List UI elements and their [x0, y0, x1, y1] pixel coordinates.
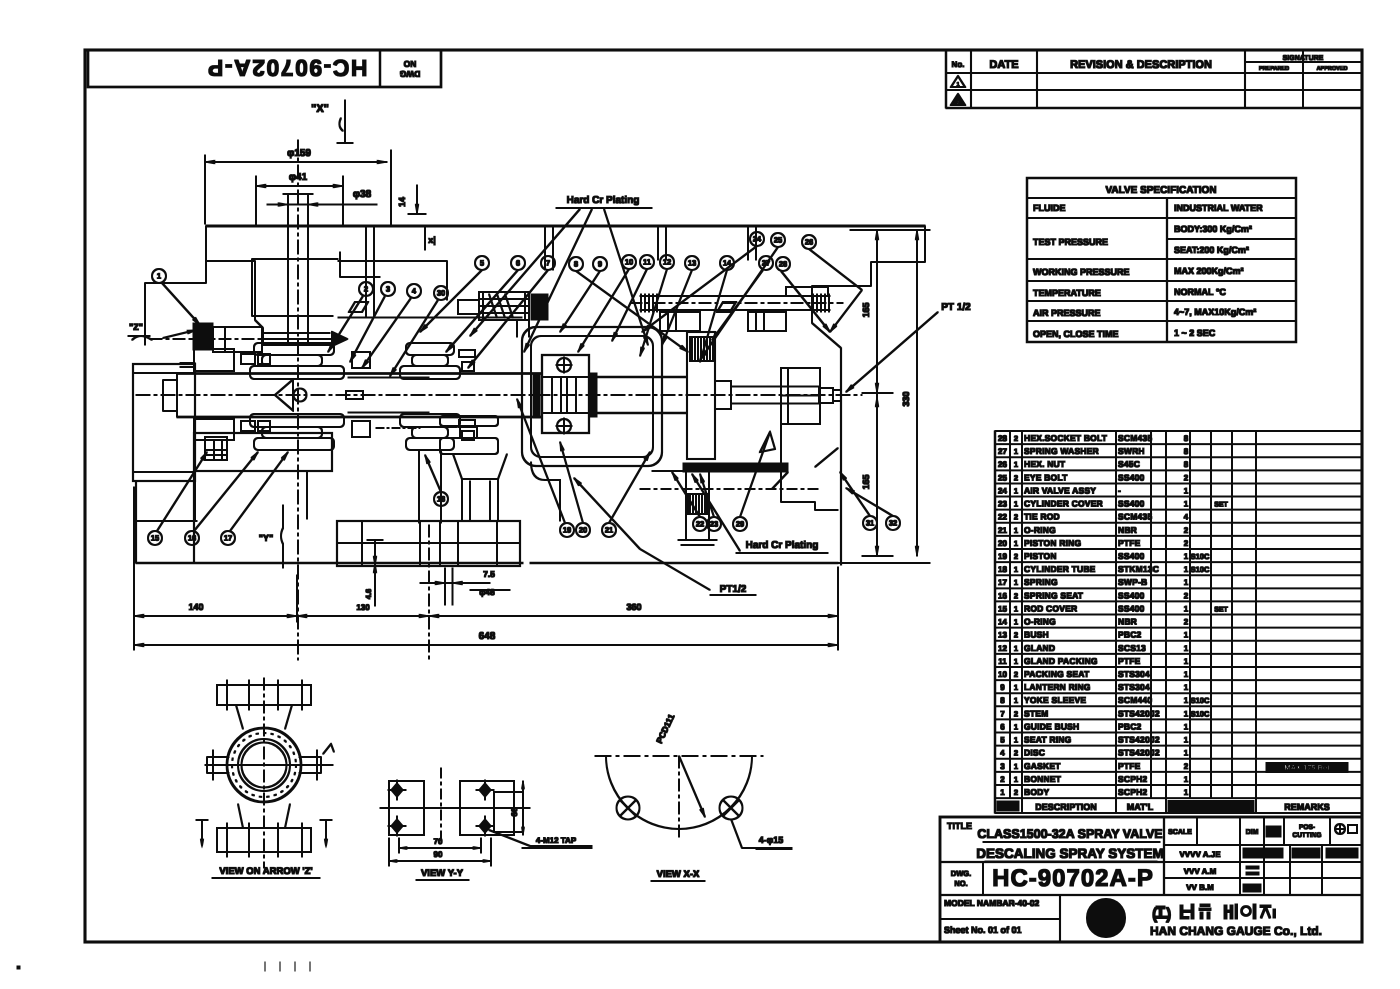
svg-text:SS400: SS400: [1118, 603, 1145, 613]
svg-text:DIM: DIM: [1246, 829, 1259, 836]
svg-text:VALVE SPECIFICATION: VALVE SPECIFICATION: [1105, 185, 1216, 196]
svg-text:HC-90702A-P: HC-90702A-P: [207, 55, 368, 81]
svg-text:1: 1: [1184, 657, 1189, 666]
svg-text:Hard Cr Plating: Hard Cr Plating: [567, 195, 640, 206]
svg-text:φ41: φ41: [289, 172, 308, 183]
svg-text:SCALE: SCALE: [1168, 829, 1192, 836]
svg-text:60: 60: [510, 807, 519, 816]
svg-text:ROD COVER: ROD COVER: [1024, 603, 1077, 613]
svg-text:1: 1: [1184, 683, 1189, 692]
svg-text:1: 1: [1184, 565, 1189, 574]
svg-text:4-φ15: 4-φ15: [759, 835, 783, 845]
svg-text:CYLINDER COVER: CYLINDER COVER: [1024, 499, 1103, 509]
svg-text:NBR: NBR: [1118, 617, 1137, 627]
svg-text:28: 28: [779, 260, 787, 269]
svg-text:26: 26: [998, 460, 1007, 469]
svg-text:90: 90: [434, 850, 443, 859]
svg-text:165: 165: [861, 302, 871, 317]
svg-text:NO.: NO.: [954, 879, 967, 888]
svg-text:YOKE SLEEVE: YOKE SLEEVE: [1024, 695, 1086, 705]
svg-text:EYE BOLT: EYE BOLT: [1024, 472, 1068, 482]
svg-text:PISTON RING: PISTON RING: [1024, 538, 1081, 548]
svg-text:6: 6: [516, 259, 520, 268]
svg-text:1: 1: [1014, 736, 1018, 745]
svg-text:1: 1: [1184, 709, 1189, 718]
svg-text:VIEW X-X: VIEW X-X: [657, 869, 700, 880]
svg-text:S45C: S45C: [1118, 459, 1140, 469]
svg-text:1: 1: [1184, 552, 1189, 561]
svg-text:1: 1: [1184, 578, 1189, 587]
svg-text:5: 5: [480, 259, 484, 268]
svg-text:360: 360: [626, 602, 641, 612]
svg-text:1: 1: [1014, 696, 1018, 705]
svg-text:APPROVED: APPROVED: [1317, 66, 1348, 72]
svg-text:HEX. NUT: HEX. NUT: [1024, 459, 1066, 469]
svg-text:φ159: φ159: [287, 148, 311, 159]
svg-text:CUTTING: CUTTING: [1293, 832, 1322, 839]
svg-text:PTFE: PTFE: [1118, 761, 1141, 771]
svg-text:TEMPERATURE: TEMPERATURE: [1033, 288, 1101, 298]
svg-text:SCPH2: SCPH2: [1118, 774, 1147, 784]
svg-text:25: 25: [774, 236, 782, 245]
svg-text:3: 3: [1000, 762, 1005, 771]
svg-text:POS-: POS-: [1299, 824, 1315, 831]
svg-text:1: 1: [1184, 788, 1189, 797]
svg-text:DESCRIPTION: DESCRIPTION: [1035, 802, 1097, 812]
svg-text:Hard Cr Plating: Hard Cr Plating: [746, 540, 819, 551]
svg-text:2: 2: [1014, 749, 1018, 758]
svg-text:27: 27: [998, 447, 1007, 456]
svg-text:PISTON: PISTON: [1024, 551, 1057, 561]
svg-text:8: 8: [1000, 696, 1005, 705]
svg-text:2: 2: [1184, 526, 1189, 535]
svg-text:OPEN, CLOSE TIME: OPEN, CLOSE TIME: [1033, 329, 1119, 339]
svg-text:PREPARED: PREPARED: [1259, 66, 1289, 72]
svg-text:STS420J2: STS420J2: [1118, 748, 1160, 758]
svg-text:19: 19: [563, 526, 571, 535]
svg-text:DATE: DATE: [989, 59, 1018, 71]
svg-text:PTFE: PTFE: [1118, 538, 1141, 548]
svg-text:HEX.SOCKET BOLT: HEX.SOCKET BOLT: [1024, 433, 1108, 443]
svg-text:S10C: S10C: [1191, 565, 1210, 574]
svg-text:1 ~ 2 SEC: 1 ~ 2 SEC: [1174, 328, 1216, 338]
svg-text:PACKING SEAT: PACKING SEAT: [1024, 669, 1090, 679]
svg-text:4~7, MAX10Kg/Cm²: 4~7, MAX10Kg/Cm²: [1174, 307, 1256, 317]
svg-text:4: 4: [1000, 749, 1005, 758]
svg-text:1: 1: [1014, 618, 1018, 627]
svg-text:15: 15: [151, 534, 159, 543]
svg-text:1: 1: [1184, 736, 1189, 745]
svg-text:14: 14: [397, 197, 407, 207]
svg-text:REVISION & DESCRIPTION: REVISION & DESCRIPTION: [1070, 59, 1212, 71]
svg-text:1: 1: [1014, 447, 1018, 456]
svg-text:20: 20: [579, 526, 587, 535]
svg-text:2: 2: [1014, 670, 1018, 679]
svg-text:1: 1: [956, 82, 959, 88]
svg-text:GLAND: GLAND: [1024, 643, 1055, 653]
svg-text:HAN CHANG GAUGE Co., Ltd.: HAN CHANG GAUGE Co., Ltd.: [1150, 924, 1322, 938]
svg-text:"Y": "Y": [259, 533, 274, 543]
svg-text:SS400: SS400: [1118, 590, 1145, 600]
svg-text:SEAT RING: SEAT RING: [1024, 735, 1072, 745]
svg-text:PBC2: PBC2: [1118, 721, 1142, 731]
svg-text:DWG.: DWG.: [951, 869, 971, 878]
svg-text:CYLINDER TUBE: CYLINDER TUBE: [1024, 564, 1096, 574]
svg-text:1: 1: [1184, 604, 1189, 613]
svg-text:7: 7: [1000, 709, 1005, 718]
svg-text:SS400: SS400: [1118, 499, 1145, 509]
svg-text:1: 1: [1014, 565, 1018, 574]
svg-text:O-RING: O-RING: [1024, 525, 1056, 535]
svg-text:TEST PRESSURE: TEST PRESSURE: [1033, 237, 1108, 247]
svg-text:SCM435: SCM435: [1118, 433, 1152, 443]
svg-text:17: 17: [998, 578, 1007, 587]
svg-text:S10C: S10C: [1191, 709, 1210, 718]
svg-text:SEAT:200 Kg/Cm²: SEAT:200 Kg/Cm²: [1174, 245, 1249, 255]
svg-text:2: 2: [1014, 552, 1018, 561]
svg-text:DWG: DWG: [399, 69, 420, 79]
svg-text:GUIDE BUSH: GUIDE BUSH: [1024, 721, 1079, 731]
svg-text:-: -: [1118, 485, 1121, 495]
svg-text:STS304: STS304: [1118, 682, 1150, 692]
svg-text:23: 23: [998, 500, 1007, 509]
svg-text:12: 12: [663, 258, 671, 267]
svg-text:VVV A.M: VVV A.M: [1184, 867, 1217, 876]
svg-text:BODY:300 Kg/Cm²: BODY:300 Kg/Cm²: [1174, 224, 1252, 234]
svg-text:SPRING SEAT: SPRING SEAT: [1024, 590, 1084, 600]
svg-text:6: 6: [1000, 722, 1005, 731]
svg-text:30: 30: [437, 289, 445, 298]
svg-text:10: 10: [998, 670, 1007, 679]
svg-text:VVVV A.JE: VVVV A.JE: [1179, 850, 1221, 859]
svg-text:24: 24: [998, 486, 1007, 495]
svg-text:1: 1: [1014, 526, 1018, 535]
svg-text:Sheet No. 01 of 01: Sheet No. 01 of 01: [944, 925, 1022, 935]
svg-text:8: 8: [574, 260, 578, 269]
svg-text:8: 8: [1184, 434, 1189, 443]
svg-text:SPRING WASHER: SPRING WASHER: [1024, 446, 1099, 456]
svg-text:8: 8: [1184, 447, 1189, 456]
svg-text:1: 1: [1014, 657, 1018, 666]
svg-text:15: 15: [998, 604, 1007, 613]
svg-text:MAX 200Kg/Cm²: MAX 200Kg/Cm²: [1174, 266, 1244, 276]
svg-text:NO: NO: [403, 59, 416, 69]
svg-text:TIE ROD: TIE ROD: [1024, 512, 1060, 522]
svg-text:1: 1: [1014, 500, 1018, 509]
svg-text:1: 1: [1014, 683, 1018, 692]
svg-text:13: 13: [688, 259, 696, 268]
svg-text:2: 2: [1184, 618, 1189, 627]
svg-text:11: 11: [998, 657, 1007, 666]
svg-text:SWP-B: SWP-B: [1118, 577, 1147, 587]
svg-text:32: 32: [889, 519, 897, 528]
svg-text:18: 18: [998, 565, 1007, 574]
svg-text:2: 2: [1014, 434, 1018, 443]
svg-text:FLUIDE: FLUIDE: [1033, 203, 1066, 213]
svg-text:No.: No.: [952, 60, 965, 69]
svg-text:1: 1: [1184, 775, 1189, 784]
svg-text:1: 1: [1184, 486, 1189, 495]
svg-text:1: 1: [1184, 644, 1189, 653]
svg-text:2: 2: [1000, 775, 1005, 784]
svg-text:REMARKS: REMARKS: [1284, 802, 1330, 812]
svg-text:MAT'L: MAT'L: [1127, 802, 1154, 812]
svg-text:NBR: NBR: [1118, 525, 1137, 535]
svg-text:2: 2: [1184, 762, 1189, 771]
svg-text:29: 29: [736, 520, 744, 529]
svg-text:2: 2: [1014, 631, 1018, 640]
svg-text:18: 18: [437, 495, 445, 504]
svg-text:4.6: 4.6: [364, 589, 373, 599]
svg-text:70: 70: [434, 837, 443, 846]
svg-text:1: 1: [1014, 775, 1018, 784]
svg-text:26: 26: [805, 238, 813, 247]
svg-text:PBC2: PBC2: [1118, 630, 1142, 640]
svg-text:VIEW Y-Y: VIEW Y-Y: [421, 868, 464, 879]
svg-text:16: 16: [998, 591, 1007, 600]
svg-text:BUSH: BUSH: [1024, 630, 1049, 640]
svg-text:1: 1: [1014, 578, 1018, 587]
svg-text:STKM13C: STKM13C: [1118, 564, 1159, 574]
svg-text:24: 24: [753, 235, 762, 244]
svg-text:"X": "X": [311, 103, 329, 115]
svg-text:SS400: SS400: [1118, 551, 1145, 561]
svg-text:5: 5: [1000, 736, 1005, 745]
svg-text:PT1/2: PT1/2: [720, 584, 747, 595]
svg-text:9: 9: [1000, 683, 1005, 692]
svg-text:9: 9: [598, 260, 602, 269]
svg-text:DESCALING SPRAY SYSTEM: DESCALING SPRAY SYSTEM: [976, 846, 1164, 861]
svg-text:13: 13: [998, 631, 1007, 640]
svg-text:SET: SET: [1214, 502, 1228, 509]
svg-text:25: 25: [998, 473, 1007, 482]
svg-text:10: 10: [625, 258, 633, 267]
svg-text:WORKING PRESSURE: WORKING PRESSURE: [1033, 267, 1130, 277]
svg-text:GLAND PACKING: GLAND PACKING: [1024, 656, 1098, 666]
svg-text:S10C: S10C: [1191, 696, 1210, 705]
svg-text:28: 28: [998, 434, 1007, 443]
svg-text:1: 1: [1000, 788, 1005, 797]
svg-text:16: 16: [188, 534, 196, 543]
svg-text:19: 19: [998, 552, 1007, 561]
svg-text:TITLE: TITLE: [947, 821, 972, 831]
svg-text:31: 31: [866, 519, 874, 528]
svg-text:HC-90702A-P: HC-90702A-P: [992, 865, 1154, 892]
svg-text:130: 130: [356, 603, 370, 612]
svg-text:VV B.M: VV B.M: [1186, 883, 1214, 892]
svg-text:S10C: S10C: [1191, 552, 1210, 561]
svg-text:SS400: SS400: [1118, 472, 1145, 482]
svg-text:SCPH2: SCPH2: [1118, 787, 1147, 797]
svg-text:SPRING: SPRING: [1024, 577, 1058, 587]
svg-text:SCS13: SCS13: [1118, 643, 1146, 653]
svg-text:3: 3: [386, 285, 390, 294]
svg-text:AIR VALVE ASSY: AIR VALVE ASSY: [1024, 485, 1096, 495]
svg-text:O-RING: O-RING: [1024, 617, 1056, 627]
svg-text:1: 1: [1184, 722, 1189, 731]
svg-text:1: 1: [1014, 486, 1018, 495]
svg-text:DISC: DISC: [1024, 748, 1045, 758]
svg-text:INDUSTRIAL WATER: INDUSTRIAL WATER: [1174, 203, 1263, 213]
svg-text:2: 2: [1184, 473, 1189, 482]
svg-text:BONNET: BONNET: [1024, 774, 1062, 784]
svg-text:φ48: φ48: [479, 587, 495, 597]
svg-text:VIEW ON ARROW 'Z': VIEW ON ARROW 'Z': [219, 866, 312, 877]
svg-text:2: 2: [1014, 709, 1018, 718]
svg-text:SCM440: SCM440: [1118, 695, 1152, 705]
svg-text:2: 2: [1014, 513, 1018, 522]
svg-text:SCM435: SCM435: [1118, 512, 1152, 522]
svg-text:1: 1: [1014, 644, 1018, 653]
svg-text:"Z": "Z": [129, 322, 143, 332]
svg-text:BODY: BODY: [1024, 787, 1049, 797]
svg-text:1: 1: [1014, 604, 1018, 613]
svg-text:2: 2: [364, 285, 368, 294]
svg-text:648: 648: [479, 631, 496, 642]
svg-text:1: 1: [1184, 631, 1189, 640]
svg-text:2: 2: [1184, 539, 1189, 548]
svg-text:8: 8: [1184, 460, 1189, 469]
svg-text:7.5: 7.5: [483, 569, 495, 579]
svg-text:AIR PRESSURE: AIR PRESSURE: [1033, 308, 1101, 318]
svg-text:17: 17: [224, 534, 232, 543]
svg-text:7: 7: [546, 259, 550, 268]
svg-text:22: 22: [998, 513, 1007, 522]
svg-text:165: 165: [861, 474, 871, 489]
svg-text:PTFE: PTFE: [1118, 656, 1141, 666]
svg-text:2: 2: [1014, 788, 1018, 797]
svg-text:23: 23: [710, 520, 718, 529]
svg-text:STS420J2: STS420J2: [1118, 708, 1160, 718]
svg-text:2: 2: [957, 100, 960, 106]
svg-text:140: 140: [188, 602, 203, 612]
svg-text:1: 1: [1184, 696, 1189, 705]
svg-text:1: 1: [1014, 539, 1018, 548]
svg-text:11: 11: [643, 258, 651, 267]
svg-text:1: 1: [1184, 500, 1189, 509]
svg-text:2: 2: [1014, 473, 1018, 482]
svg-text:4-M12 TAP: 4-M12 TAP: [536, 836, 577, 845]
svg-text:LANTERN RING: LANTERN RING: [1024, 682, 1091, 692]
svg-text:NORMAL °C: NORMAL °C: [1174, 287, 1226, 297]
svg-text:21: 21: [605, 526, 613, 535]
svg-text:CLASS1500-32A SPRAY VALVE: CLASS1500-32A SPRAY VALVE: [977, 827, 1162, 841]
svg-text:14: 14: [998, 618, 1007, 627]
svg-text:MAX 175 Ref: MAX 175 Ref: [1284, 763, 1330, 772]
svg-text:1: 1: [1014, 762, 1018, 771]
svg-text:22: 22: [696, 520, 704, 529]
svg-text:1: 1: [1184, 749, 1189, 758]
svg-text:1: 1: [1184, 670, 1189, 679]
svg-text:x|: x|: [428, 235, 436, 245]
svg-text:φ38: φ38: [353, 189, 372, 200]
svg-text:1: 1: [157, 272, 161, 281]
svg-text:STS304: STS304: [1118, 669, 1150, 679]
svg-text:330: 330: [901, 391, 911, 406]
svg-text:SET: SET: [1214, 606, 1228, 613]
svg-text:20: 20: [998, 539, 1007, 548]
svg-text:STS420J2: STS420J2: [1118, 735, 1160, 745]
svg-text:STEM: STEM: [1024, 708, 1048, 718]
svg-text:2: 2: [1184, 591, 1189, 600]
svg-text:21: 21: [998, 526, 1007, 535]
svg-text:1: 1: [1014, 722, 1018, 731]
svg-text:SWRH: SWRH: [1118, 446, 1145, 456]
svg-text:SIGNATURE: SIGNATURE: [1283, 55, 1324, 62]
svg-text:12: 12: [998, 644, 1007, 653]
svg-text:): ): [1166, 906, 1171, 923]
svg-text:MODEL NAMBAR-40-02: MODEL NAMBAR-40-02: [944, 898, 1040, 908]
svg-text:PT 1/2: PT 1/2: [941, 302, 971, 313]
svg-text:GASKET: GASKET: [1024, 761, 1061, 771]
svg-text:1: 1: [1014, 460, 1018, 469]
svg-text:4: 4: [1184, 513, 1189, 522]
svg-text:2: 2: [1014, 591, 1018, 600]
